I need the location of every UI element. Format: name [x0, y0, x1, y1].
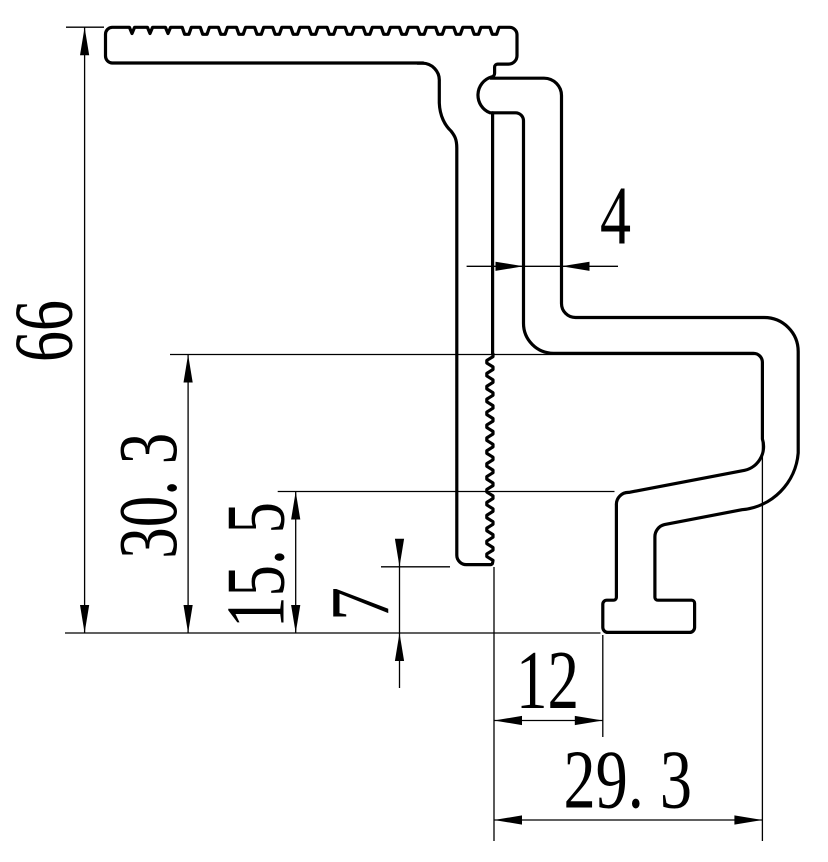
svg-text:29. 3: 29. 3: [564, 734, 693, 827]
svg-text:15. 5: 15. 5: [210, 502, 303, 628]
svg-text:30. 3: 30. 3: [102, 433, 195, 559]
svg-text:4: 4: [600, 170, 631, 263]
svg-text:66: 66: [0, 300, 91, 362]
svg-text:7: 7: [314, 587, 407, 621]
svg-text:12: 12: [516, 634, 579, 727]
